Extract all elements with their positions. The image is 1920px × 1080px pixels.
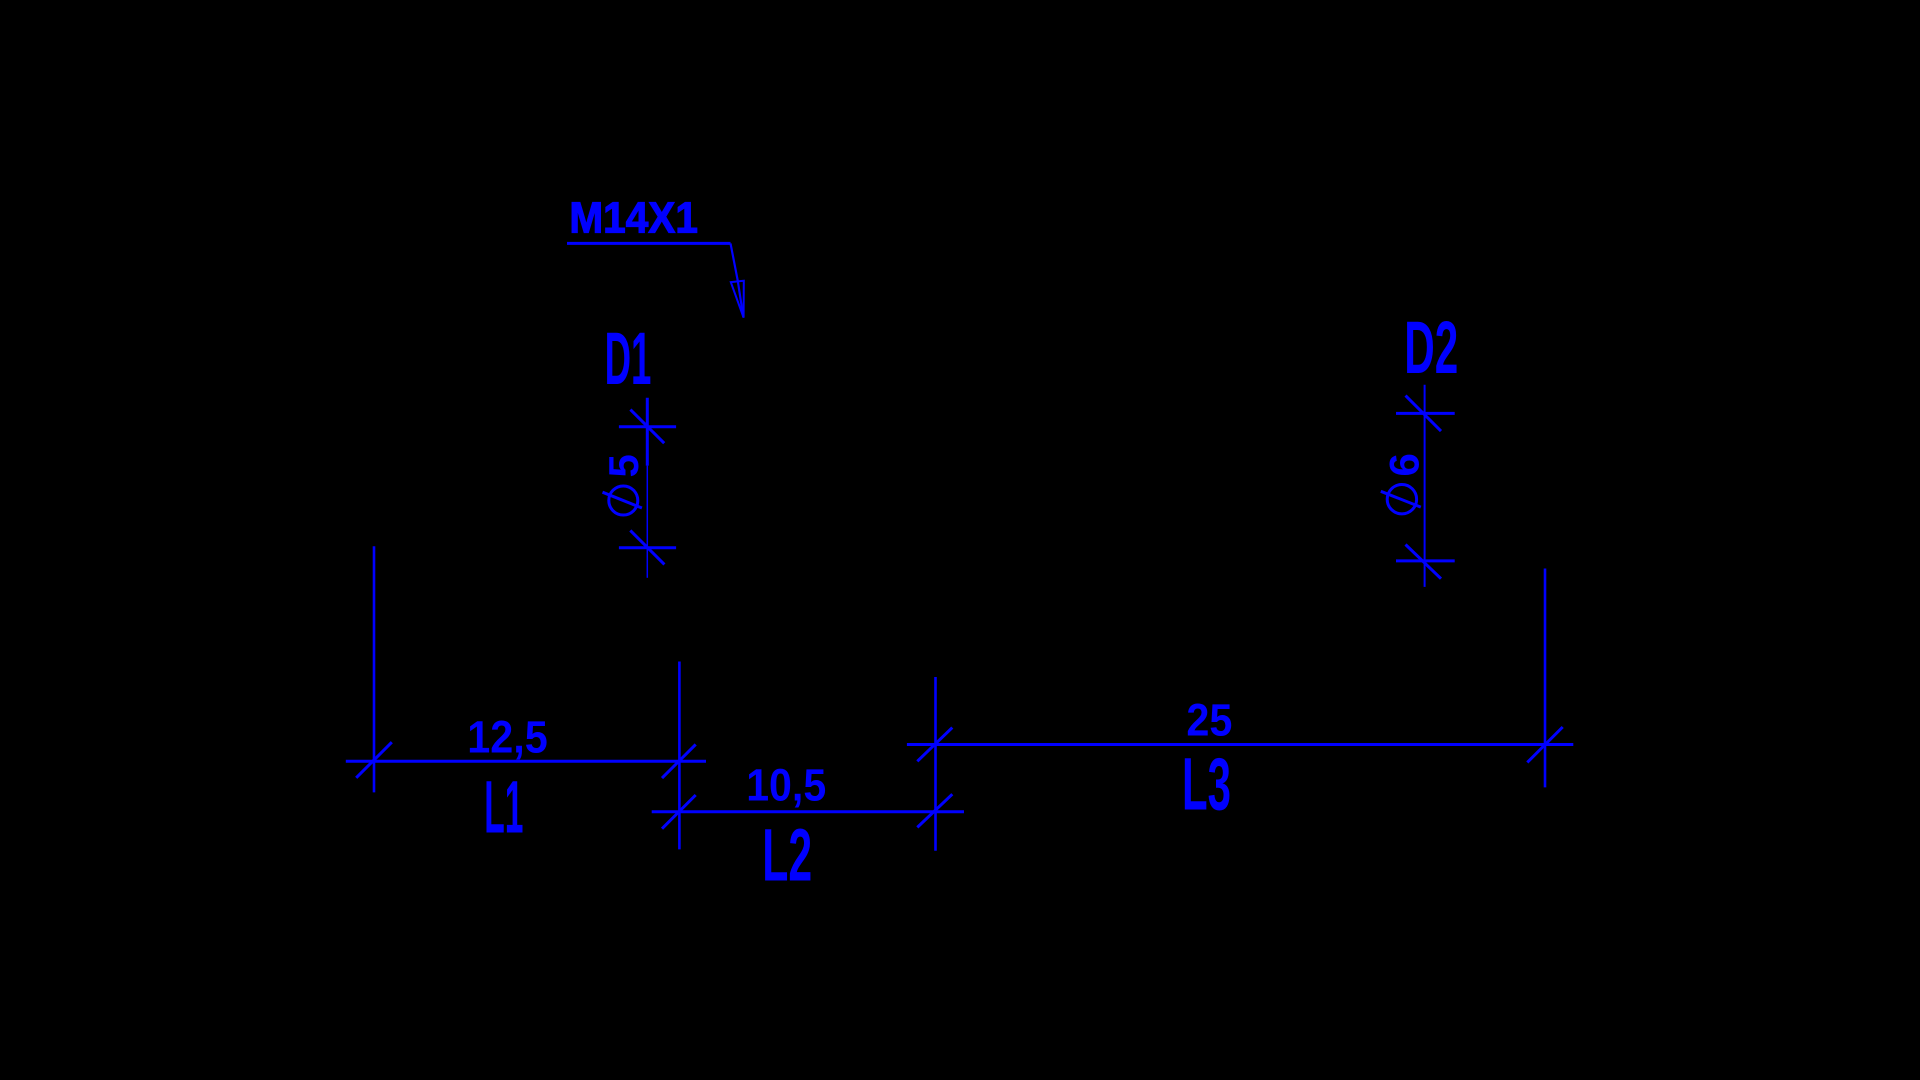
- dimension D1 line (lower thin): [646, 466, 648, 578]
- svg-text:10,5: 10,5: [746, 760, 826, 811]
- dimension D1 bottom extension stub: [619, 546, 676, 549]
- svg-text:D2: D2: [1404, 305, 1458, 389]
- leader diagonal: [731, 243, 744, 317]
- dimension D2 bottom extension stub: [1396, 559, 1455, 562]
- svg-text:12,5: 12,5: [467, 711, 548, 762]
- dimension L2 line: [652, 810, 964, 813]
- value ⌀5 : diameter slash: [603, 492, 642, 508]
- leader underline: [567, 242, 731, 245]
- value 10,5: [746, 760, 826, 811]
- value ⌀5 : diameter circle: [609, 486, 638, 515]
- svg-text:5: 5: [600, 454, 647, 477]
- dimension D2 top tick: [1406, 396, 1442, 432]
- value ⌀5 : digit 5 (rotated): [600, 454, 647, 477]
- dimension L3 right tick: [1527, 727, 1562, 762]
- dimension L1 line: [346, 760, 706, 763]
- extension line right (L3 end): [1544, 569, 1547, 788]
- dimension L3 left tick: [917, 728, 952, 762]
- value ⌀6 : diameter circle: [1387, 485, 1416, 514]
- svg-text:L2: L2: [762, 813, 812, 896]
- dimension L2 right tick: [917, 794, 952, 827]
- svg-text:25: 25: [1186, 695, 1232, 746]
- dimension D2 line: [1424, 385, 1426, 587]
- svg-text:D1: D1: [605, 318, 652, 400]
- value ⌀6 : diameter slash: [1381, 491, 1421, 507]
- value 12,5: [467, 711, 548, 762]
- label D2: [1404, 305, 1458, 389]
- leader arrowhead: [731, 281, 744, 318]
- label L1: [484, 767, 523, 849]
- extension line middle (L1 end / L2 start): [678, 662, 681, 850]
- dimension D1 bottom tick: [630, 530, 664, 564]
- label L3: [1182, 743, 1231, 825]
- dimension D2 bottom tick: [1406, 545, 1442, 579]
- extension line (L2 end / L3 start): [934, 677, 937, 851]
- value 25: [1186, 695, 1232, 746]
- dimension L1 right tick: [662, 744, 696, 778]
- dimension D2 top extension stub: [1396, 412, 1455, 415]
- dimension L1 left tick: [356, 742, 392, 778]
- dimension D1 line (upper thick): [646, 398, 649, 466]
- dimension D1 top extension stub: [619, 425, 676, 428]
- value ⌀6 : digit 6 (rotated): [1380, 453, 1427, 476]
- dimension L3 line: [907, 743, 1573, 746]
- svg-text:6: 6: [1380, 453, 1427, 476]
- thread label M14X1: [569, 193, 698, 242]
- svg-text:L3: L3: [1182, 743, 1231, 825]
- svg-text:L1: L1: [484, 767, 523, 849]
- label L2: [762, 813, 812, 896]
- svg-text:M14X1: M14X1: [569, 193, 698, 242]
- label D1: [605, 318, 652, 400]
- dimension D1 top tick: [630, 410, 664, 444]
- dimension L2 left tick: [662, 795, 696, 829]
- extension line left (L1 start): [373, 546, 376, 792]
